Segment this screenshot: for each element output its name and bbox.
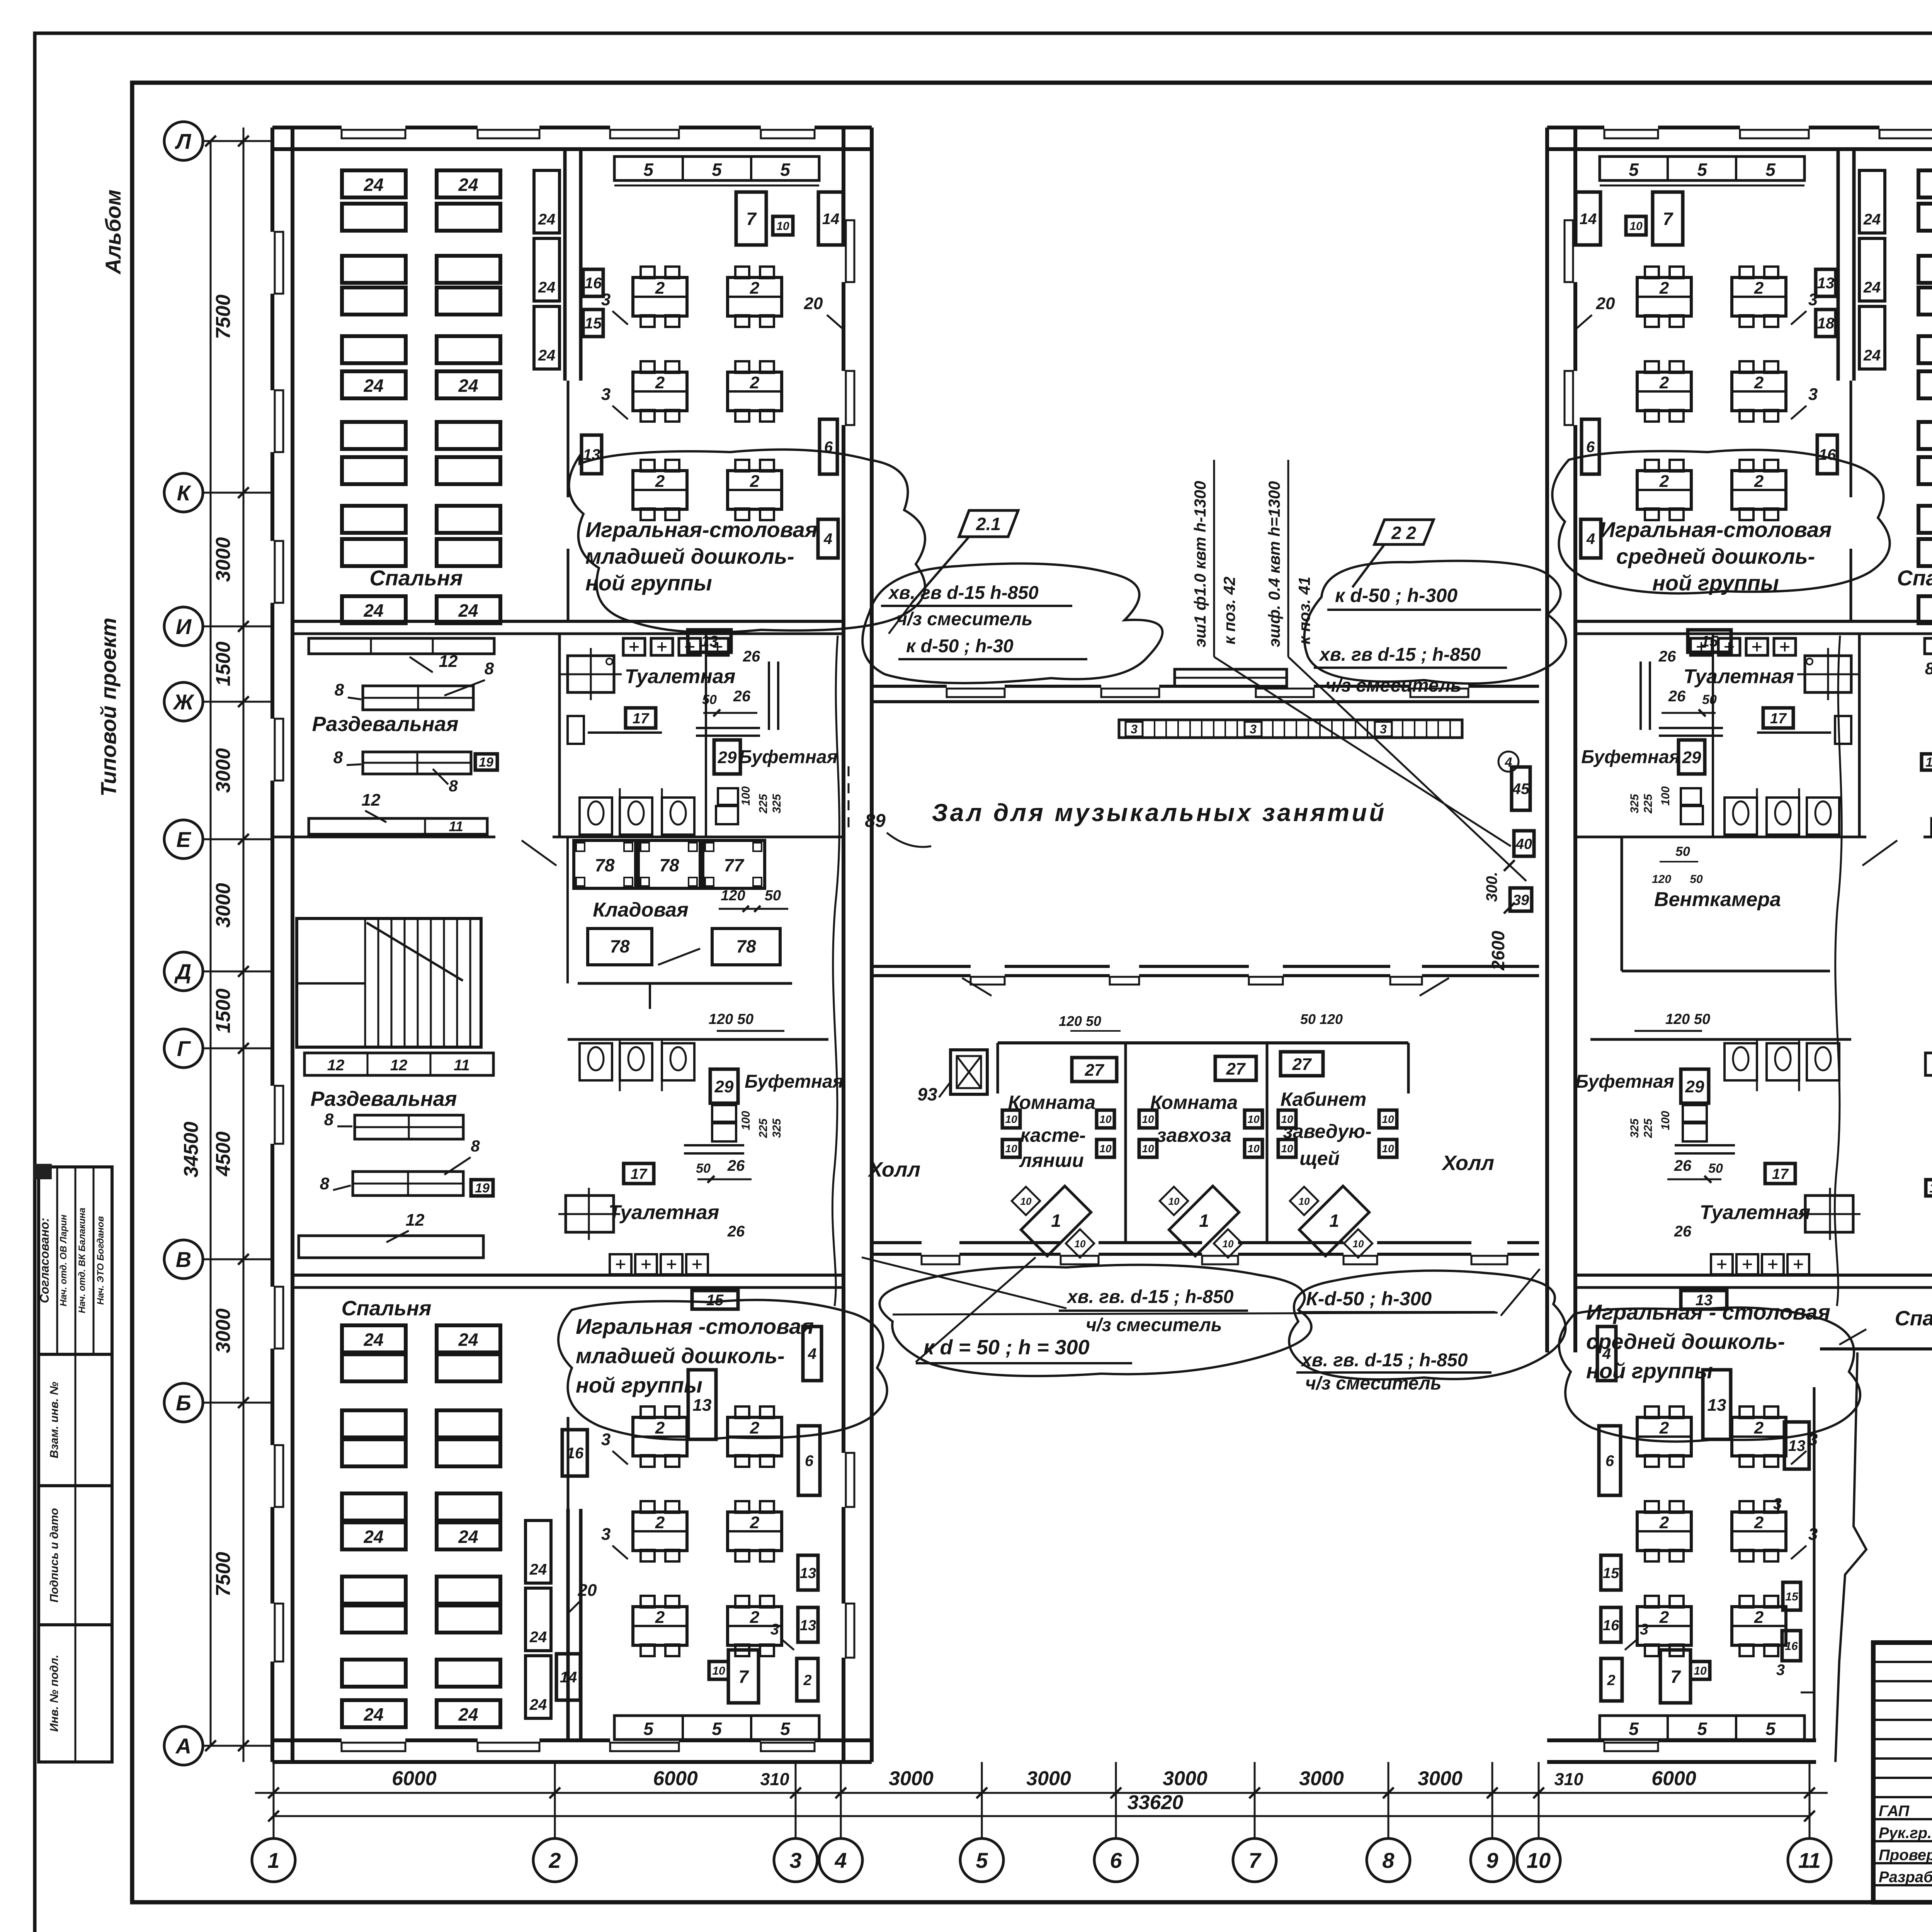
svg-text:2: 2 [1754, 373, 1764, 392]
svg-text:5: 5 [1697, 160, 1708, 180]
svg-text:Игральная-столовая: Игральная-столовая [1600, 517, 1832, 542]
svg-text:50: 50 [1708, 1161, 1723, 1176]
svg-text:12: 12 [362, 791, 381, 810]
svg-text:26: 26 [743, 648, 760, 665]
svg-text:Рук.гр.: Рук.гр. [1879, 1825, 1932, 1842]
svg-text:2: 2 [1659, 472, 1669, 491]
svg-text:2: 2 [750, 472, 760, 491]
svg-text:17: 17 [1772, 1166, 1789, 1182]
svg-text:5: 5 [976, 1848, 988, 1872]
svg-text:15: 15 [585, 315, 602, 332]
svg-text:2: 2 [548, 1848, 561, 1872]
svg-text:16: 16 [566, 1445, 584, 1462]
svg-text:78: 78 [659, 855, 679, 875]
svg-text:2: 2 [655, 1608, 665, 1627]
svg-text:1: 1 [1329, 1211, 1339, 1231]
svg-text:3: 3 [1131, 722, 1138, 736]
svg-text:10: 10 [1099, 1143, 1112, 1155]
svg-text:225: 225 [757, 794, 770, 814]
svg-text:В: В [176, 1247, 191, 1272]
svg-text:93: 93 [917, 1084, 937, 1104]
svg-text:325: 325 [1628, 794, 1641, 813]
svg-text:3: 3 [601, 385, 611, 404]
svg-text:3: 3 [789, 1848, 801, 1872]
svg-text:6: 6 [1110, 1848, 1122, 1872]
svg-text:5: 5 [712, 1719, 722, 1739]
svg-text:6000: 6000 [1651, 1767, 1696, 1790]
svg-text:33620: 33620 [1128, 1791, 1184, 1814]
svg-text:средней дошколь-: средней дошколь- [1586, 1329, 1785, 1354]
svg-text:8: 8 [449, 777, 458, 795]
svg-text:3: 3 [1808, 385, 1818, 404]
svg-text:Спальня: Спальня [1897, 566, 1932, 590]
svg-text:29: 29 [1682, 748, 1701, 767]
svg-text:Спальня: Спальня [342, 1297, 432, 1320]
svg-text:26: 26 [1674, 1157, 1692, 1174]
svg-text:8: 8 [485, 659, 494, 678]
svg-text:26: 26 [1658, 648, 1676, 665]
svg-text:24: 24 [458, 175, 478, 195]
svg-text:300.: 300. [1483, 872, 1500, 902]
svg-text:13: 13 [693, 1396, 712, 1415]
svg-text:18: 18 [1817, 315, 1835, 332]
svg-text:5: 5 [780, 1719, 791, 1739]
svg-text:3: 3 [770, 1621, 779, 1638]
svg-text:100: 100 [740, 1111, 752, 1130]
svg-text:14: 14 [560, 1669, 577, 1686]
svg-text:Туалетная: Туалетная [1700, 1201, 1811, 1224]
svg-text:50: 50 [1702, 692, 1717, 707]
svg-text:Инв. № подл.: Инв. № подл. [48, 1655, 61, 1731]
svg-text:24: 24 [458, 1527, 478, 1547]
svg-text:2: 2 [1659, 1608, 1669, 1627]
svg-text:Холл: Холл [1441, 1151, 1494, 1175]
svg-text:26: 26 [1668, 688, 1686, 705]
svg-text:2: 2 [803, 1672, 811, 1689]
svg-text:16: 16 [1819, 446, 1836, 463]
svg-text:10: 10 [1247, 1143, 1260, 1155]
svg-text:24: 24 [363, 376, 383, 396]
svg-text:1: 1 [1199, 1211, 1209, 1231]
svg-text:Спальня: Спальня [1895, 1307, 1932, 1330]
svg-text:310: 310 [1554, 1769, 1583, 1789]
svg-text:24: 24 [538, 279, 556, 296]
svg-text:10: 10 [1353, 1238, 1364, 1250]
svg-text:16: 16 [585, 275, 602, 292]
svg-text:24: 24 [363, 1330, 383, 1350]
svg-text:10: 10 [1142, 1113, 1154, 1125]
svg-text:6: 6 [1605, 1452, 1614, 1469]
svg-text:ной группы: ной группы [1586, 1359, 1713, 1383]
svg-text:Г: Г [177, 1036, 191, 1061]
svg-text:10: 10 [1142, 1143, 1154, 1155]
svg-text:3: 3 [1773, 1495, 1782, 1512]
svg-text:ной группы: ной группы [576, 1373, 702, 1397]
svg-text:11: 11 [1798, 1848, 1821, 1872]
svg-text:5: 5 [1765, 160, 1776, 180]
svg-text:2: 2 [1659, 279, 1669, 298]
svg-text:5: 5 [643, 1719, 654, 1739]
svg-text:26: 26 [1674, 1223, 1692, 1240]
svg-text:к поз. 41: к поз. 41 [1295, 577, 1313, 645]
svg-text:1500: 1500 [212, 988, 235, 1033]
svg-text:2600: 2600 [1488, 930, 1508, 971]
svg-text:24: 24 [1863, 211, 1881, 228]
svg-text:Буфетная: Буфетная [1581, 747, 1680, 767]
svg-text:3000: 3000 [1026, 1767, 1071, 1790]
svg-text:10: 10 [1694, 1665, 1707, 1677]
svg-text:завхоза: завхоза [1156, 1124, 1231, 1146]
svg-text:225: 225 [757, 1118, 770, 1138]
svg-text:7500: 7500 [212, 1552, 235, 1597]
svg-text:50: 50 [696, 1161, 711, 1176]
svg-text:19: 19 [479, 755, 493, 770]
svg-text:ч/з смеситель: ч/з смеситель [1086, 1315, 1222, 1335]
svg-text:2: 2 [1754, 1418, 1764, 1437]
svg-text:Провер.: Провер. [1879, 1847, 1932, 1864]
svg-text:225: 225 [1642, 794, 1655, 814]
svg-text:12: 12 [327, 1057, 345, 1074]
svg-text:7: 7 [746, 209, 757, 229]
svg-text:хв. гв. d-15 ; h-850: хв. гв. d-15 ; h-850 [1066, 1287, 1234, 1307]
svg-text:24: 24 [1863, 279, 1881, 296]
svg-text:10: 10 [1075, 1238, 1086, 1250]
svg-text:24: 24 [529, 1629, 547, 1646]
svg-text:Буфетная: Буфетная [745, 1071, 844, 1092]
svg-text:8: 8 [320, 1174, 330, 1193]
svg-text:19: 19 [475, 1181, 490, 1196]
svg-text:Альбом: Альбом [101, 190, 125, 275]
svg-text:2: 2 [1754, 472, 1764, 491]
svg-text:120 50: 120 50 [1059, 1013, 1101, 1029]
svg-text:1: 1 [267, 1848, 279, 1872]
svg-text:3: 3 [1250, 722, 1257, 736]
svg-text:Типовой проект: Типовой проект [96, 617, 121, 796]
svg-text:34500: 34500 [180, 1122, 202, 1178]
svg-text:12: 12 [439, 652, 458, 671]
svg-text:Туалетная: Туалетная [1684, 665, 1794, 688]
svg-text:2: 2 [1659, 373, 1669, 392]
svg-text:ГАП: ГАП [1879, 1803, 1910, 1820]
svg-text:10: 10 [1281, 1143, 1293, 1155]
svg-text:5: 5 [712, 160, 722, 180]
svg-text:17: 17 [631, 1166, 648, 1182]
svg-text:7500: 7500 [212, 294, 235, 339]
svg-text:к поз. 42: к поз. 42 [1220, 577, 1238, 645]
svg-text:24: 24 [529, 1561, 547, 1578]
svg-text:10: 10 [1020, 1196, 1032, 1207]
svg-text:Д: Д [174, 959, 191, 984]
svg-text:20: 20 [804, 294, 823, 313]
svg-text:10: 10 [1929, 1181, 1932, 1196]
svg-text:2 2: 2 2 [1391, 523, 1416, 543]
svg-text:3: 3 [601, 290, 611, 309]
svg-text:29: 29 [718, 748, 737, 767]
svg-text:2: 2 [750, 1608, 760, 1627]
svg-text:10: 10 [1629, 220, 1643, 233]
svg-text:10: 10 [1299, 1196, 1310, 1207]
svg-text:3000: 3000 [889, 1767, 934, 1790]
svg-text:26: 26 [727, 1223, 745, 1240]
svg-text:3000: 3000 [1299, 1767, 1344, 1790]
svg-text:78: 78 [595, 855, 615, 875]
svg-text:16: 16 [1785, 1640, 1798, 1653]
svg-text:2: 2 [1659, 1418, 1669, 1437]
svg-text:120 50: 120 50 [1665, 1011, 1710, 1027]
svg-text:А: А [175, 1734, 191, 1758]
svg-text:3: 3 [1640, 1621, 1648, 1638]
svg-text:4500: 4500 [212, 1131, 235, 1177]
svg-text:3: 3 [1776, 1662, 1785, 1679]
svg-text:29: 29 [1685, 1077, 1704, 1096]
svg-text:младшей дошколь-: младшей дошколь- [585, 544, 794, 568]
svg-text:13: 13 [1788, 1437, 1806, 1454]
svg-text:хв. гв. d-15 ; h-850: хв. гв. d-15 ; h-850 [1300, 1350, 1468, 1371]
svg-text:Подпись и дато: Подпись и дато [48, 1508, 61, 1602]
svg-text:10: 10 [1527, 1848, 1551, 1872]
svg-text:2: 2 [655, 472, 665, 491]
svg-text:5: 5 [1765, 1719, 1776, 1739]
svg-text:24: 24 [363, 175, 383, 195]
svg-text:2: 2 [750, 373, 760, 392]
svg-text:78: 78 [610, 936, 630, 956]
svg-text:Холл: Холл [867, 1158, 920, 1181]
svg-text:Е: Е [176, 827, 191, 852]
svg-text:Игральная-столовая: Игральная-столовая [585, 517, 818, 542]
svg-text:Ж: Ж [172, 690, 195, 714]
svg-text:Буфетная: Буфетная [1575, 1071, 1674, 1092]
svg-text:к d-50 ; h-30: к d-50 ; h-30 [906, 636, 1014, 656]
svg-text:8: 8 [471, 1137, 480, 1155]
svg-text:Туалетная: Туалетная [609, 1201, 719, 1224]
svg-text:10: 10 [712, 1665, 725, 1677]
svg-text:Кабинет: Кабинет [1281, 1088, 1367, 1110]
svg-text:5: 5 [1629, 160, 1639, 180]
svg-text:младшей дошколь-: младшей дошколь- [576, 1344, 785, 1368]
svg-text:27: 27 [1292, 1055, 1312, 1074]
svg-text:325: 325 [770, 1118, 783, 1138]
svg-text:хв. гв d-15 h-850: хв. гв d-15 h-850 [888, 583, 1039, 603]
svg-text:3: 3 [1808, 290, 1818, 309]
svg-text:17: 17 [1770, 711, 1787, 727]
svg-text:310: 310 [760, 1769, 789, 1789]
svg-text:2: 2 [750, 279, 760, 298]
svg-text:Л: Л [175, 129, 192, 153]
svg-text:3000: 3000 [212, 537, 235, 582]
svg-text:10: 10 [1099, 1113, 1112, 1125]
svg-text:10: 10 [776, 220, 789, 233]
svg-text:1500: 1500 [212, 641, 235, 686]
svg-text:40: 40 [1515, 836, 1532, 852]
svg-text:Туалетная: Туалетная [625, 665, 736, 688]
svg-text:16: 16 [1603, 1617, 1619, 1634]
svg-text:1: 1 [1051, 1211, 1061, 1231]
svg-text:Венткамера: Венткамера [1654, 888, 1781, 911]
svg-text:Б: Б [176, 1391, 191, 1415]
svg-text:13: 13 [1708, 1396, 1726, 1415]
svg-text:лянши: лянши [1019, 1150, 1084, 1171]
svg-text:11: 11 [454, 1057, 470, 1074]
svg-text:50: 50 [702, 692, 717, 707]
svg-text:6000: 6000 [653, 1767, 698, 1790]
svg-text:Кладовая: Кладовая [593, 899, 688, 921]
svg-text:2: 2 [655, 1418, 665, 1437]
svg-text:Взам. инв. №: Взам. инв. № [48, 1382, 61, 1458]
svg-text:14: 14 [1580, 211, 1597, 228]
svg-text:5: 5 [780, 160, 791, 180]
svg-text:225: 225 [1642, 1118, 1655, 1138]
svg-text:24: 24 [458, 1704, 478, 1725]
svg-text:5: 5 [643, 160, 654, 180]
svg-text:12: 12 [390, 1057, 408, 1074]
svg-text:24: 24 [458, 600, 478, 621]
svg-text:10: 10 [1247, 1113, 1260, 1125]
svg-text:4: 4 [808, 1345, 816, 1362]
svg-text:10: 10 [1223, 1238, 1234, 1250]
svg-text:24: 24 [458, 376, 478, 396]
svg-text:15: 15 [1603, 1565, 1619, 1582]
svg-text:8: 8 [1925, 659, 1932, 678]
svg-text:7: 7 [1663, 209, 1673, 229]
svg-text:325: 325 [1628, 1118, 1641, 1138]
svg-text:15: 15 [1785, 1590, 1799, 1603]
svg-text:И: И [176, 614, 192, 639]
svg-text:7: 7 [738, 1667, 749, 1687]
svg-text:средней дошколь-: средней дошколь- [1616, 544, 1815, 568]
svg-text:ч/з смеситель: ч/з смеситель [1325, 675, 1461, 696]
svg-text:4: 4 [823, 531, 832, 548]
svg-text:26: 26 [733, 688, 751, 705]
svg-text:50: 50 [765, 888, 781, 904]
svg-text:Согласовано:: Согласовано: [37, 1218, 51, 1303]
svg-text:24: 24 [363, 600, 383, 621]
svg-text:3000: 3000 [212, 883, 235, 928]
svg-text:120 50: 120 50 [709, 1011, 753, 1027]
svg-text:50: 50 [1690, 873, 1703, 886]
svg-text:50: 50 [1675, 844, 1690, 859]
svg-text:24: 24 [363, 1527, 383, 1547]
svg-text:20: 20 [1596, 294, 1615, 313]
svg-text:эшф. 0.4 квт h=1300: эшф. 0.4 квт h=1300 [1265, 481, 1283, 647]
svg-text:2: 2 [750, 1418, 760, 1437]
svg-text:13: 13 [800, 1565, 816, 1582]
svg-text:6000: 6000 [392, 1767, 437, 1790]
svg-text:100: 100 [740, 786, 752, 806]
svg-text:3000: 3000 [1418, 1767, 1463, 1790]
svg-text:6: 6 [1586, 439, 1595, 456]
svg-text:10: 10 [1382, 1143, 1394, 1155]
svg-text:Комната: Комната [1150, 1092, 1238, 1113]
svg-text:Раздевальная: Раздевальная [312, 713, 458, 736]
svg-text:Нач. отд. ВК Балакина: Нач. отд. ВК Балакина [77, 1207, 87, 1313]
svg-text:Буфетная: Буфетная [739, 747, 838, 767]
svg-text:2: 2 [1754, 1513, 1764, 1532]
svg-text:щей: щей [1299, 1148, 1340, 1169]
svg-text:8: 8 [324, 1110, 334, 1129]
svg-text:6: 6 [805, 1452, 814, 1469]
svg-text:24: 24 [1863, 347, 1881, 364]
svg-text:45: 45 [1512, 781, 1530, 798]
svg-text:3: 3 [601, 1525, 611, 1544]
svg-text:5: 5 [1629, 1719, 1639, 1739]
svg-text:78: 78 [736, 936, 756, 956]
svg-text:24: 24 [458, 1330, 478, 1350]
svg-text:77: 77 [724, 855, 745, 875]
svg-text:К: К [177, 481, 192, 505]
svg-text:2.1: 2.1 [976, 514, 1001, 534]
svg-text:10: 10 [1005, 1143, 1017, 1155]
svg-text:10: 10 [1925, 755, 1932, 770]
svg-text:8: 8 [333, 748, 343, 767]
svg-text:120: 120 [1652, 873, 1671, 886]
svg-text:24: 24 [538, 347, 556, 364]
svg-text:2: 2 [1754, 1608, 1764, 1627]
svg-text:к d-50 ; h-300: к d-50 ; h-300 [1335, 585, 1458, 606]
svg-text:8: 8 [335, 680, 344, 699]
svg-text:ч/з смеситель: ч/з смеситель [896, 609, 1032, 629]
svg-text:3000: 3000 [212, 1308, 235, 1353]
svg-text:ной группы: ной группы [1652, 571, 1779, 595]
svg-text:7: 7 [1670, 1667, 1681, 1687]
svg-text:89: 89 [865, 811, 886, 831]
svg-text:325: 325 [770, 794, 783, 813]
svg-text:29: 29 [714, 1077, 734, 1096]
svg-text:2: 2 [655, 373, 665, 392]
svg-text:касте-: касте- [1020, 1124, 1086, 1146]
svg-text:Комната: Комната [1008, 1092, 1096, 1113]
svg-text:13: 13 [1817, 275, 1835, 292]
svg-text:24: 24 [363, 1704, 383, 1725]
svg-text:10: 10 [1382, 1113, 1394, 1125]
svg-text:к d = 50 ; h = 300: к d = 50 ; h = 300 [923, 1336, 1090, 1359]
svg-text:К-d-50 ; h-300: К-d-50 ; h-300 [1306, 1288, 1432, 1310]
svg-text:Зал для музыкальных зан: Зал для музыкальных занятий [932, 799, 1387, 827]
svg-text:24: 24 [538, 211, 556, 228]
svg-text:14: 14 [822, 211, 840, 228]
svg-text:2: 2 [1607, 1672, 1615, 1689]
svg-text:4: 4 [1586, 531, 1595, 548]
svg-text:Нач. отд. ОВ Ларин: Нач. отд. ОВ Ларин [58, 1214, 69, 1306]
svg-text:Игральная -столовая: Игральная -столовая [576, 1314, 814, 1338]
svg-text:2: 2 [750, 1513, 760, 1532]
svg-text:ч/з смеситель: ч/з смеситель [1305, 1373, 1441, 1394]
svg-text:11: 11 [449, 818, 463, 834]
svg-text:2: 2 [1659, 1513, 1669, 1532]
svg-text:хв. гв d-15 ; h-850: хв. гв d-15 ; h-850 [1318, 645, 1481, 665]
svg-text:2: 2 [1754, 279, 1764, 298]
svg-text:3000: 3000 [212, 748, 235, 793]
svg-text:27: 27 [1226, 1060, 1246, 1078]
svg-text:7: 7 [1248, 1848, 1262, 1872]
svg-text:2: 2 [655, 279, 665, 298]
svg-text:39: 39 [1513, 892, 1529, 908]
svg-text:120: 120 [721, 888, 745, 904]
svg-text:ной группы: ной группы [585, 571, 712, 595]
svg-text:17: 17 [633, 711, 650, 727]
svg-text:100: 100 [1659, 786, 1672, 806]
svg-text:27: 27 [1085, 1061, 1105, 1080]
svg-text:эш1 ф1.0 квт h-1300: эш1 ф1.0 квт h-1300 [1191, 481, 1209, 648]
svg-text:5: 5 [1697, 1719, 1708, 1739]
svg-text:12: 12 [406, 1211, 425, 1230]
svg-text:10: 10 [1005, 1113, 1017, 1125]
svg-text:3: 3 [1380, 722, 1387, 736]
svg-text:24: 24 [529, 1696, 547, 1713]
svg-text:20: 20 [578, 1581, 597, 1600]
svg-text:Раздевальная: Раздевальная [310, 1087, 457, 1111]
svg-text:100: 100 [1659, 1111, 1672, 1130]
svg-text:10: 10 [1168, 1196, 1180, 1207]
